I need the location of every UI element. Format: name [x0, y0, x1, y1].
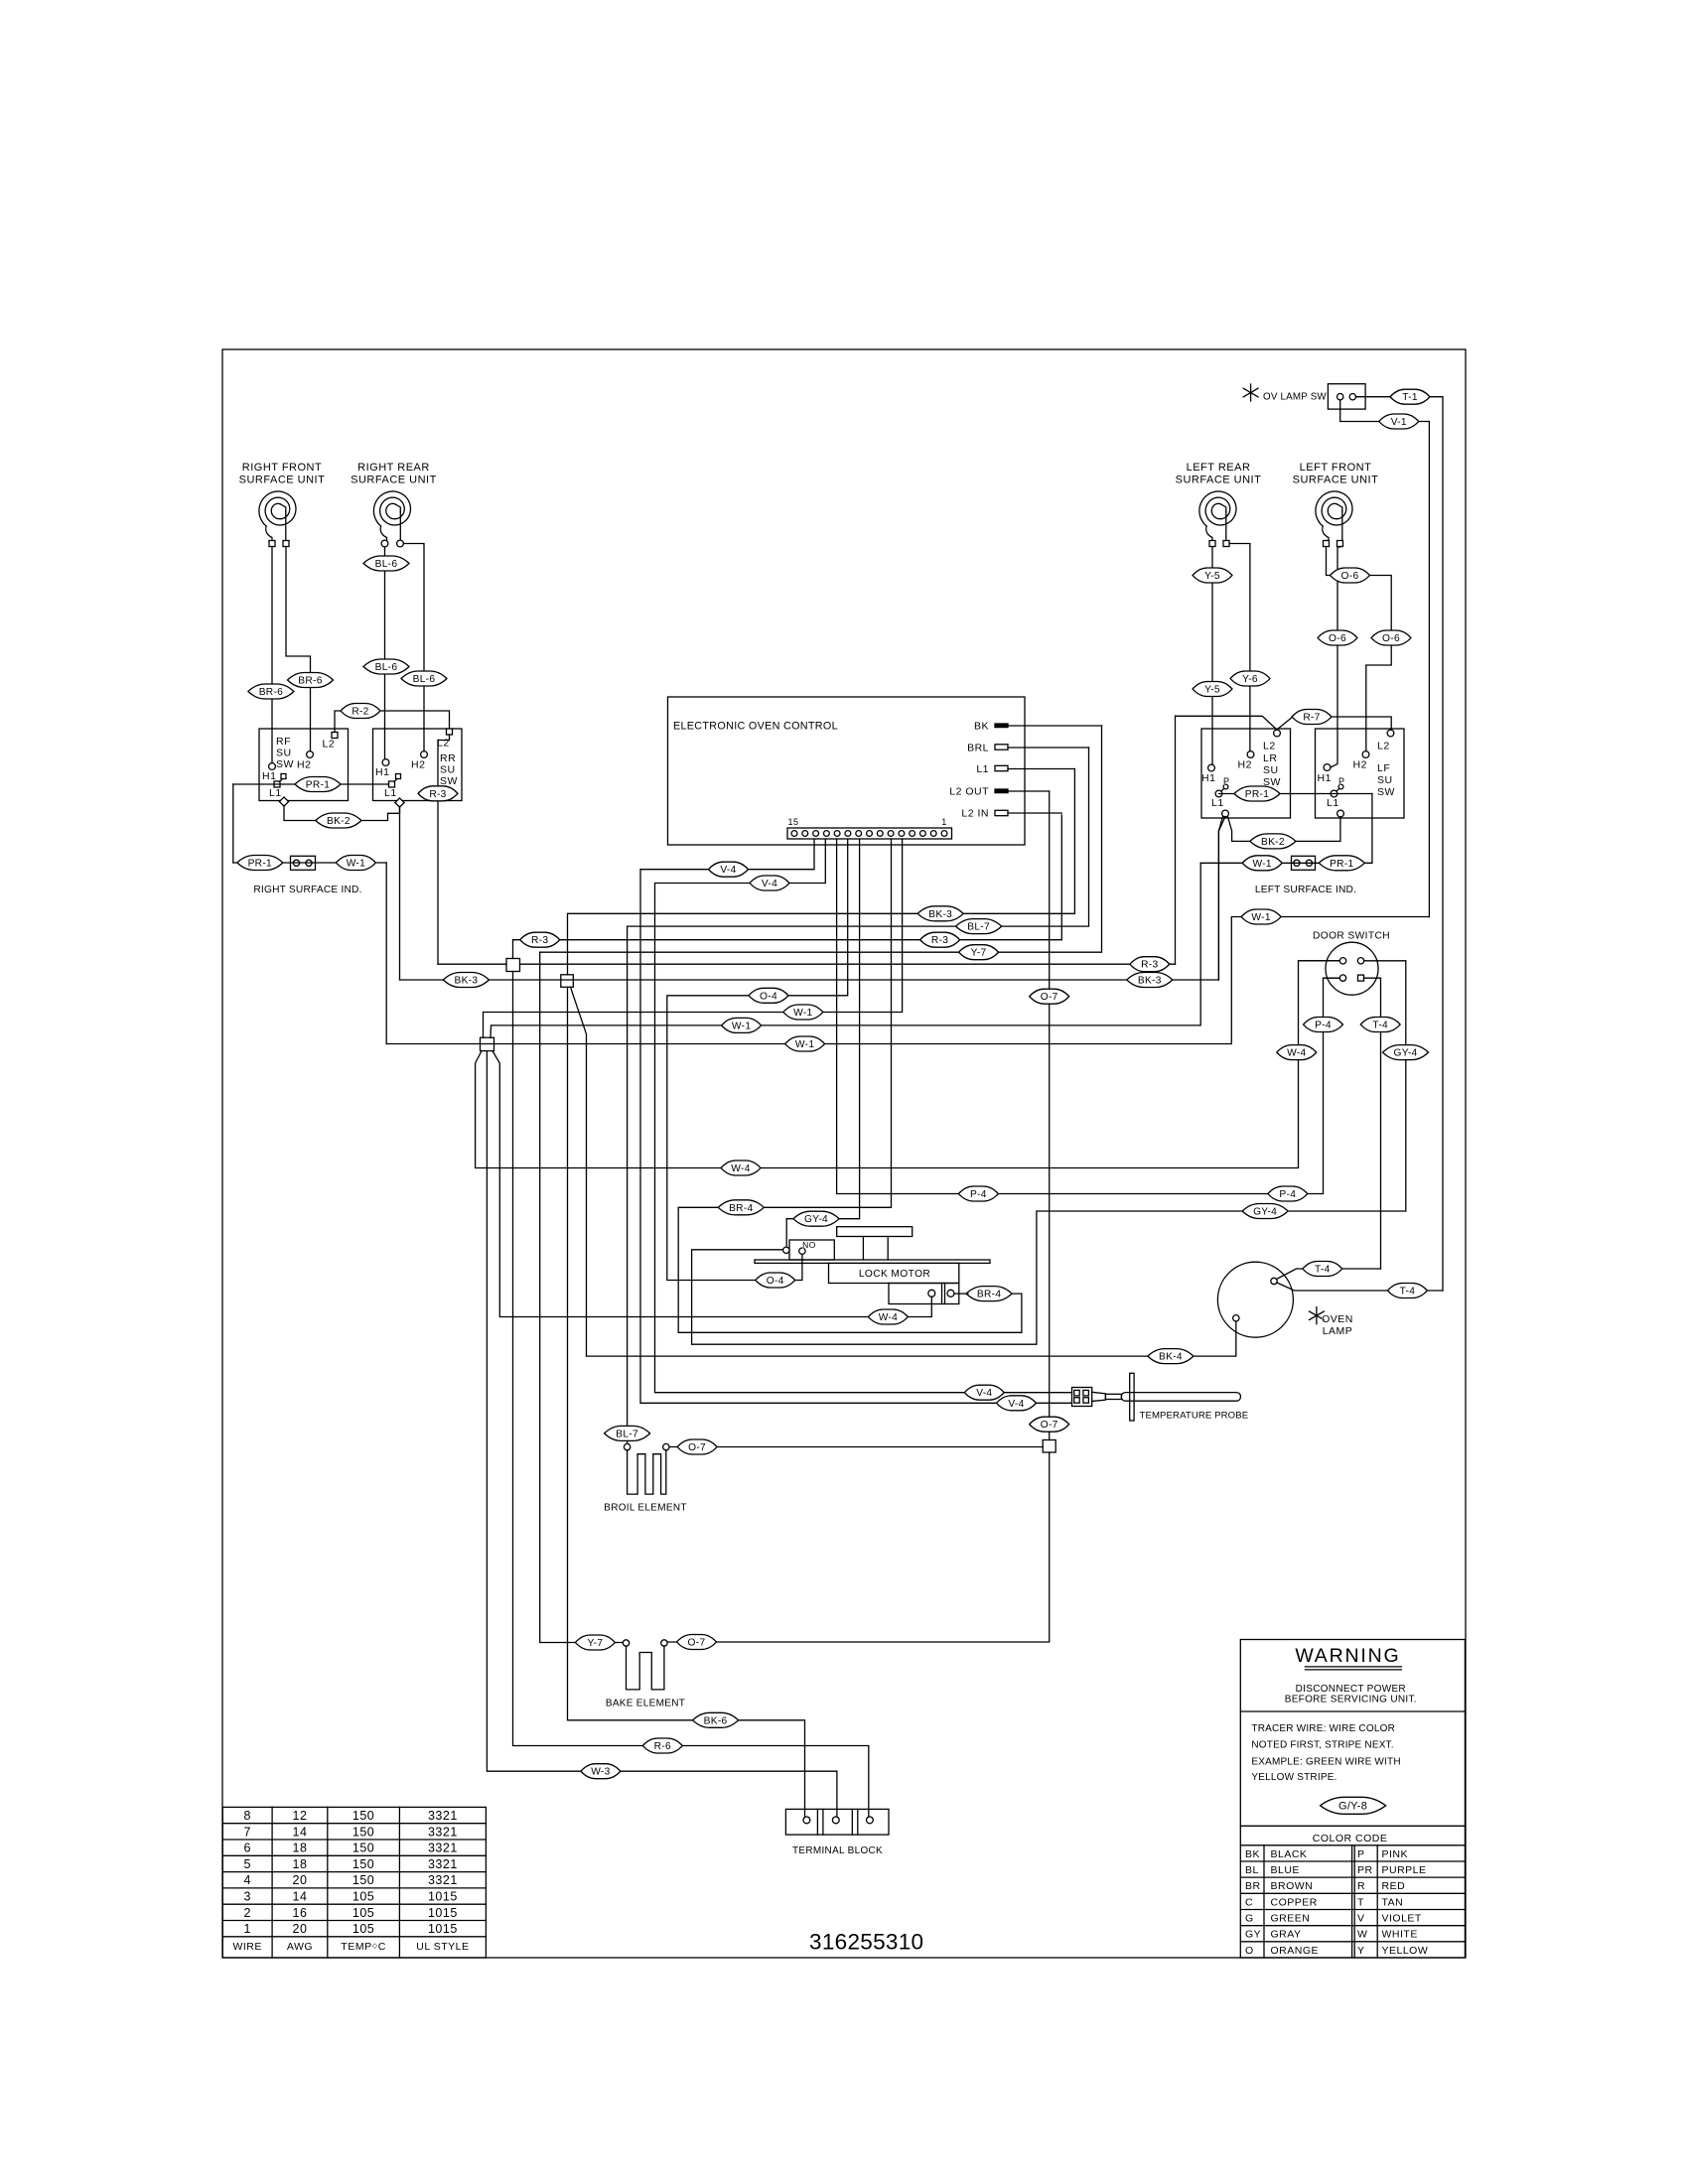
svg-text:PR: PR	[1357, 1864, 1373, 1876]
lock motor switch box	[789, 1240, 834, 1260]
oval label O-7 upper	[1030, 989, 1069, 1004]
bake element	[627, 1646, 664, 1690]
svg-text:L2: L2	[323, 739, 336, 751]
svg-text:BAKE ELEMENT: BAKE ELEMENT	[606, 1699, 685, 1709]
svg-text:W-4: W-4	[1287, 1048, 1306, 1059]
label BEFORE SERVICING UNIT	[1285, 1695, 1417, 1706]
svg-text:LOCK MOTOR: LOCK MOTOR	[859, 1269, 930, 1280]
svg-text:COPPER: COPPER	[1271, 1896, 1318, 1908]
oval label G/Y-8	[1321, 1797, 1386, 1814]
svg-text:SURFACE UNIT: SURFACE UNIT	[351, 475, 437, 486]
oval label PR-1 ind	[237, 856, 283, 871]
svg-text:O-7: O-7	[1041, 1420, 1058, 1431]
svg-text:H2: H2	[1238, 759, 1252, 771]
svg-text:SURFACE UNIT: SURFACE UNIT	[1293, 475, 1379, 486]
label RIGHT SURFACE IND.	[253, 885, 361, 895]
wire GY-4 door switch	[692, 961, 1406, 1344]
svg-text:L2 OUT: L2 OUT	[949, 786, 989, 798]
svg-text:16: 16	[293, 1906, 308, 1920]
svg-text:2: 2	[243, 1906, 250, 1920]
oval label O-4 upper	[749, 988, 788, 1003]
svg-text:BL-7: BL-7	[616, 1429, 638, 1439]
wire LR H1 lead	[1211, 547, 1213, 764]
svg-text:O-4: O-4	[767, 1276, 784, 1287]
svg-text:AWG: AWG	[287, 1941, 313, 1953]
svg-text:Y-7: Y-7	[971, 948, 987, 959]
broil element terminal right	[663, 1443, 669, 1449]
terminal RR-sw H2	[411, 751, 427, 771]
svg-text:Y-5: Y-5	[1204, 685, 1220, 696]
svg-text:H2: H2	[297, 759, 311, 771]
svg-text:BK-4: BK-4	[1159, 1352, 1183, 1363]
svg-text:150: 150	[352, 1873, 374, 1887]
terminal LF-sw pilot	[1337, 810, 1344, 817]
wire probe junction horizontal	[669, 1446, 1043, 1448]
svg-text:BK-6: BK-6	[704, 1715, 728, 1726]
svg-text:H1: H1	[375, 766, 389, 778]
wire R-2	[335, 711, 450, 733]
terminal RR-sw L1	[384, 774, 401, 800]
svg-text:3321: 3321	[428, 1842, 458, 1855]
junction square O-7	[1043, 1440, 1055, 1453]
oval label W-1 right	[1241, 909, 1281, 924]
svg-text:BK: BK	[1245, 1848, 1260, 1860]
lock motor divider	[942, 1284, 945, 1304]
label RR SU SW	[440, 752, 458, 787]
wire L2 OUT down O-7	[1049, 791, 1051, 1440]
svg-text:W-1: W-1	[793, 1008, 812, 1019]
terminal RF-sw H1	[262, 763, 276, 782]
svg-text:14: 14	[293, 1890, 308, 1904]
wire L1 bus RF-RR	[233, 783, 389, 785]
wire V-4 pin12	[655, 839, 1072, 1393]
svg-text:SW: SW	[276, 758, 294, 770]
terminal LR right	[1223, 541, 1229, 547]
label TERMINAL BLOCK	[792, 1845, 883, 1856]
oval label O-6 right	[1371, 630, 1411, 645]
svg-text:BL: BL	[1245, 1864, 1259, 1876]
lock motor contact left	[928, 1290, 935, 1297]
svg-text:BEFORE SERVICING UNIT.: BEFORE SERVICING UNIT.	[1285, 1695, 1417, 1706]
svg-text:L1: L1	[976, 763, 989, 775]
oval label PR-1 L1 right	[1234, 786, 1280, 801]
wire eoc BK lead	[1008, 725, 1102, 727]
switch box LF SU SW	[1316, 729, 1405, 818]
svg-text:BR: BR	[1245, 1880, 1261, 1892]
svg-text:PR-1: PR-1	[1245, 789, 1269, 800]
wire W-1 left surface ind	[491, 863, 1200, 1037]
terminal RF left	[269, 541, 275, 547]
svg-text:H2: H2	[411, 759, 425, 771]
svg-text:LEFT REAR: LEFT REAR	[1187, 462, 1251, 474]
svg-text:DOOR SWITCH: DOOR SWITCH	[1313, 931, 1390, 942]
label LEFT FRONT SURFACE UNIT	[1293, 462, 1379, 486]
svg-text:Y-6: Y-6	[1242, 674, 1258, 685]
svg-text:150: 150	[352, 1857, 374, 1871]
wire RR H1 lead	[384, 547, 386, 759]
svg-text:R-7: R-7	[1303, 713, 1320, 724]
svg-text:BL-6: BL-6	[375, 559, 398, 570]
svg-text:RIGHT SURFACE IND.: RIGHT SURFACE IND.	[253, 885, 361, 895]
oval label GY-4 motor	[793, 1211, 839, 1226]
svg-text:T: T	[1357, 1896, 1364, 1908]
svg-text:316255310: 316255310	[809, 1930, 923, 1955]
svg-text:V: V	[1357, 1913, 1365, 1925]
wire RF H2 lead	[286, 547, 311, 751]
terminal RF-sw H2	[297, 751, 313, 771]
svg-text:15: 15	[787, 817, 798, 827]
svg-text:RF: RF	[276, 736, 291, 748]
svg-text:BR-4: BR-4	[977, 1290, 1001, 1300]
svg-text:O-4: O-4	[760, 991, 777, 1002]
svg-text:H1: H1	[1201, 772, 1215, 784]
oval label BL-6 upper	[363, 556, 409, 571]
svg-text:SURFACE UNIT: SURFACE UNIT	[239, 475, 326, 486]
svg-text:W-3: W-3	[591, 1767, 610, 1778]
svg-text:H1: H1	[262, 770, 276, 782]
wire T-4 lamp upper	[1277, 1269, 1381, 1280]
eoc terminal L2 OUT	[949, 786, 1008, 798]
svg-text:LEFT FRONT: LEFT FRONT	[1300, 462, 1372, 474]
wire BL-7 down to broil	[627, 926, 629, 1443]
ov lamp sw pin left	[1337, 394, 1343, 400]
oval label O-7 mid	[1030, 1417, 1069, 1432]
svg-text:SU: SU	[276, 748, 292, 759]
oval label GY-4 mid	[1242, 1204, 1288, 1219]
lock motor stem	[863, 1237, 888, 1261]
switch box LR SU SW	[1201, 729, 1291, 818]
svg-text:12: 12	[293, 1809, 308, 1823]
label TRACER WIRE	[1251, 1723, 1395, 1734]
svg-text:PURPLE: PURPLE	[1382, 1864, 1427, 1876]
svg-text:G: G	[1245, 1913, 1254, 1925]
terminal RF-sw pilot	[279, 797, 288, 806]
door switch pin BR	[1358, 975, 1364, 981]
lock motor NO contact	[799, 1248, 805, 1254]
wire RR H2 lead	[404, 544, 425, 751]
terminal LF right	[1337, 541, 1343, 547]
terminal LR-sw H1	[1201, 764, 1215, 784]
svg-text:105: 105	[352, 1922, 374, 1936]
oval label R-3 in RR box	[418, 786, 458, 801]
svg-text:P-4: P-4	[1279, 1189, 1296, 1200]
wire W-1 main horizontal	[386, 1043, 1231, 1045]
svg-text:VIOLET: VIOLET	[1382, 1913, 1422, 1925]
eoc terminal L2 IN	[961, 808, 1008, 820]
svg-text:P-4: P-4	[1315, 1021, 1332, 1031]
oval label O-4 lower	[756, 1273, 795, 1288]
terminal RR-sw H1	[375, 759, 389, 778]
terminal LR-sw L2	[1263, 730, 1280, 751]
wire W-1 riser right	[1231, 917, 1429, 1044]
svg-text:BL-6: BL-6	[375, 662, 398, 673]
svg-text:TRACER WIRE: WIRE COLOR: TRACER WIRE: WIRE COLOR	[1251, 1723, 1395, 1734]
svg-text:BK-2: BK-2	[1261, 837, 1285, 848]
svg-text:ORANGE: ORANGE	[1271, 1945, 1320, 1957]
door switch pin TR	[1357, 958, 1363, 964]
terminal LR left	[1209, 541, 1215, 547]
oval label Y-7 bake	[575, 1635, 615, 1650]
oval label V-1	[1379, 414, 1419, 429]
svg-text:H2: H2	[1353, 759, 1367, 771]
svg-text:OVEN: OVEN	[1322, 1313, 1353, 1325]
oval label Y-5 upper	[1193, 568, 1232, 583]
svg-text:W-1: W-1	[347, 859, 365, 870]
oval label BR-6 right	[288, 673, 334, 688]
svg-text:V-4: V-4	[720, 865, 736, 876]
lock motor common contact	[783, 1247, 789, 1253]
svg-text:BK: BK	[974, 721, 989, 733]
svg-text:H1: H1	[1318, 772, 1332, 784]
svg-text:3321: 3321	[428, 1809, 458, 1823]
svg-text:6: 6	[243, 1842, 250, 1855]
warning divider 1	[1240, 1710, 1465, 1712]
svg-text:L2: L2	[1263, 741, 1276, 752]
terminal block box	[785, 1809, 889, 1835]
wire eoc L2 OUT lead	[1008, 790, 1050, 792]
wire R-3 riser to R-7	[1175, 716, 1177, 964]
oval label BK-2 right	[1250, 834, 1296, 849]
bake element terminal left	[623, 1640, 629, 1646]
svg-text:BK-3: BK-3	[454, 976, 478, 987]
wire door TL stub	[1299, 960, 1340, 962]
oven lamp switch box	[1328, 384, 1365, 409]
svg-text:O: O	[1245, 1945, 1254, 1957]
svg-text:BL-6: BL-6	[413, 674, 436, 685]
svg-text:TEMPERATURE PROBE: TEMPERATURE PROBE	[1140, 1411, 1249, 1422]
electronic oven control box	[668, 697, 1026, 845]
wire BK-3 riser to LR pilot	[1218, 817, 1225, 981]
svg-text:105: 105	[352, 1906, 374, 1920]
wire BR-4 contact stub	[954, 1293, 968, 1295]
svg-text:RR: RR	[440, 752, 456, 764]
eoc connector pin strip	[787, 828, 952, 839]
oval label W-1 a	[783, 1005, 823, 1020]
svg-text:WIRE: WIRE	[232, 1941, 261, 1953]
wire RF pilot to BK-2	[284, 806, 400, 821]
svg-text:Y-5: Y-5	[1204, 571, 1220, 582]
coil RIGHT REAR SURFACE UNIT	[373, 491, 410, 544]
svg-text:3321: 3321	[428, 1857, 458, 1871]
terminal RR left	[381, 540, 388, 547]
wire L2 IN riser	[1060, 815, 1062, 940]
oval label PR-1 ind2	[1319, 856, 1364, 871]
warning underline	[1305, 1667, 1401, 1670]
wire PR-1 riser to L1 LF	[1371, 794, 1373, 864]
terminal LR-sw L1	[1211, 776, 1230, 809]
svg-text:BK-2: BK-2	[327, 816, 351, 827]
svg-text:LF: LF	[1377, 762, 1390, 774]
label LEFT REAR SURFACE UNIT	[1176, 462, 1262, 486]
oval label Y-7 mid	[959, 945, 999, 960]
svg-text:BR-6: BR-6	[298, 676, 322, 687]
oval label R-2	[341, 704, 380, 719]
broil element terminal left	[624, 1443, 630, 1449]
oval label P-4 b	[1268, 1186, 1308, 1201]
oval label BL-7 broil	[605, 1426, 650, 1440]
svg-text:BK-3: BK-3	[928, 909, 952, 920]
svg-text:L1: L1	[1327, 797, 1339, 809]
svg-text:3321: 3321	[428, 1873, 458, 1887]
svg-text:R-3: R-3	[531, 935, 548, 946]
svg-text:105: 105	[352, 1890, 374, 1904]
oval label P-4 door	[1304, 1018, 1343, 1032]
label RF SU SW	[276, 736, 294, 770]
wire RF H1 lead	[271, 547, 273, 763]
svg-text:Y-7: Y-7	[587, 1638, 603, 1649]
label BAKE ELEMENT	[606, 1699, 685, 1709]
svg-text:NO: NO	[802, 1240, 816, 1250]
svg-text:NOTED FIRST, STRIPE NEXT.: NOTED FIRST, STRIPE NEXT.	[1251, 1740, 1393, 1751]
svg-text:W-4: W-4	[731, 1163, 750, 1174]
oval label GY-4 door	[1383, 1045, 1429, 1060]
oval label O-7 bake	[677, 1635, 717, 1650]
svg-text:P: P	[1223, 776, 1230, 786]
oval label BK-3 right	[1127, 973, 1173, 988]
svg-text:W: W	[1357, 1929, 1367, 1941]
oval label V-4 up2	[750, 876, 789, 890]
wire LR H2 lead	[1230, 544, 1250, 751]
svg-text:O-7: O-7	[688, 1442, 706, 1453]
ov lamp sw pin right	[1349, 394, 1355, 400]
terminal RR-sw pilot	[395, 798, 404, 807]
oval label W-4 door	[1277, 1045, 1317, 1060]
oval label W-4 mid	[721, 1160, 761, 1175]
wire square3 diag W-4 doorsw	[476, 961, 1339, 1168]
oval label BR-4 left	[718, 1200, 764, 1215]
oven lamp terminal bottom	[1233, 1315, 1239, 1321]
wire LR pilot diag left	[1218, 817, 1222, 981]
svg-text:L2: L2	[1377, 741, 1390, 752]
svg-text:L1: L1	[269, 787, 282, 799]
wire left riser to indicator	[232, 784, 234, 863]
wire square2 diagonal BK-4	[571, 987, 1236, 1356]
wire left surface indicator	[1200, 862, 1372, 864]
svg-text:P-4: P-4	[970, 1189, 987, 1200]
svg-text:150: 150	[352, 1842, 374, 1855]
label BROIL ELEMENT	[604, 1503, 687, 1514]
svg-text:V-4: V-4	[976, 1388, 992, 1399]
wire LF H1 lead	[1331, 547, 1340, 767]
svg-text:PR-1: PR-1	[306, 780, 330, 791]
door switch circle	[1326, 942, 1378, 995]
wire square3 diag W-4 motor	[492, 1051, 931, 1317]
svg-text:20: 20	[293, 1922, 308, 1936]
wire V-4 pin13	[640, 839, 1072, 1403]
bake element terminal right	[661, 1640, 667, 1646]
left surface indicator box	[1292, 856, 1316, 870]
oval label R-3 mid-left	[520, 932, 560, 947]
svg-text:L1: L1	[1211, 797, 1224, 809]
svg-text:GY: GY	[1245, 1929, 1261, 1941]
svg-text:R-2: R-2	[352, 707, 368, 718]
terminal RF-sw L1	[269, 774, 286, 800]
svg-text:BRL: BRL	[967, 743, 989, 754]
part number 316255310	[809, 1930, 923, 1955]
wire O-7 down to bake	[667, 1452, 1050, 1642]
svg-text:BR-4: BR-4	[729, 1203, 753, 1214]
oval label R-3 mid-right	[920, 932, 960, 947]
oval label BL-7 mid	[956, 919, 1002, 934]
svg-text:O-7: O-7	[1041, 992, 1058, 1003]
svg-text:V-4: V-4	[1008, 1399, 1024, 1410]
eoc pin label 15	[787, 817, 798, 827]
wire W-1 pin5	[484, 839, 903, 1037]
terminal RR right	[397, 540, 404, 547]
svg-text:SW: SW	[1377, 786, 1395, 798]
svg-text:BK-3: BK-3	[1138, 976, 1162, 987]
svg-text:V-1: V-1	[1391, 417, 1407, 428]
wire eoc L1 lead	[1008, 768, 1074, 770]
svg-text:O-6: O-6	[1329, 633, 1346, 644]
svg-text:TEMP◇C: TEMP◇C	[341, 1941, 386, 1953]
svg-text:TERMINAL BLOCK: TERMINAL BLOCK	[792, 1845, 883, 1856]
wire BR-4 pin6	[678, 839, 1022, 1332]
svg-text:C: C	[1245, 1896, 1253, 1908]
oval label BK-4	[1148, 1349, 1194, 1364]
svg-text:R-6: R-6	[654, 1741, 671, 1752]
svg-text:OV LAMP SW: OV LAMP SW	[1263, 392, 1327, 403]
wire BK-3 horizontal	[400, 979, 1219, 981]
coil LEFT FRONT SURFACE UNIT	[1316, 491, 1352, 544]
svg-text:4: 4	[243, 1873, 250, 1887]
svg-text:G/Y-8: G/Y-8	[1338, 1800, 1367, 1812]
svg-text:W-1: W-1	[732, 1021, 751, 1031]
svg-text:20: 20	[293, 1873, 308, 1887]
svg-text:P: P	[1357, 1848, 1365, 1860]
label YELLOW STRIPE	[1251, 1772, 1336, 1783]
oval label W-1 ind2	[1242, 856, 1282, 871]
wire RR L2 to R-3 vertical	[438, 735, 450, 964]
svg-text:LAMP: LAMP	[1323, 1325, 1353, 1337]
oval label BK-3 upper	[917, 906, 963, 921]
terminal block pin 3	[867, 1817, 874, 1824]
junction square 1	[506, 959, 520, 972]
svg-text:W-1: W-1	[1251, 912, 1270, 923]
oven lamp terminal top	[1271, 1278, 1277, 1284]
wire W-1 ind riser	[385, 863, 387, 1044]
terminal LR-sw H2	[1238, 751, 1254, 771]
svg-text:GY-4: GY-4	[1393, 1048, 1417, 1059]
svg-text:T-1: T-1	[1402, 392, 1418, 403]
eoc pin label 1	[941, 817, 947, 827]
oval label PR-1 L1	[295, 777, 341, 792]
oval label BK-2 left	[316, 813, 361, 828]
wire L1 bus LR-LF	[1219, 793, 1372, 795]
svg-text:1015: 1015	[428, 1890, 458, 1904]
oval label BR-4 right	[966, 1287, 1012, 1301]
junction square 2	[561, 975, 574, 988]
wire L1 down BK-3b	[568, 769, 1075, 975]
svg-text:GREEN: GREEN	[1271, 1913, 1311, 1925]
oval label O-7 broil	[677, 1439, 717, 1454]
svg-text:BR-6: BR-6	[259, 687, 283, 698]
wire V-1 riser	[1340, 400, 1430, 917]
label EXAMPLE	[1251, 1757, 1400, 1768]
svg-text:PR-1: PR-1	[1330, 859, 1353, 870]
svg-text:V-4: V-4	[762, 879, 777, 889]
terminal block pin 1	[803, 1817, 810, 1824]
svg-text:EXAMPLE: GREEN WIRE WITH: EXAMPLE: GREEN WIRE WITH	[1251, 1757, 1400, 1768]
wire BRL down BL-7	[628, 748, 1089, 926]
oven lamp circle	[1217, 1262, 1293, 1337]
label DOOR SWITCH	[1313, 931, 1390, 942]
svg-text:150: 150	[352, 1825, 374, 1839]
terminal LF left	[1324, 541, 1330, 547]
terminal block dividers	[817, 1809, 857, 1835]
probe connector block	[1072, 1388, 1092, 1407]
svg-text:Y: Y	[1357, 1945, 1365, 1957]
